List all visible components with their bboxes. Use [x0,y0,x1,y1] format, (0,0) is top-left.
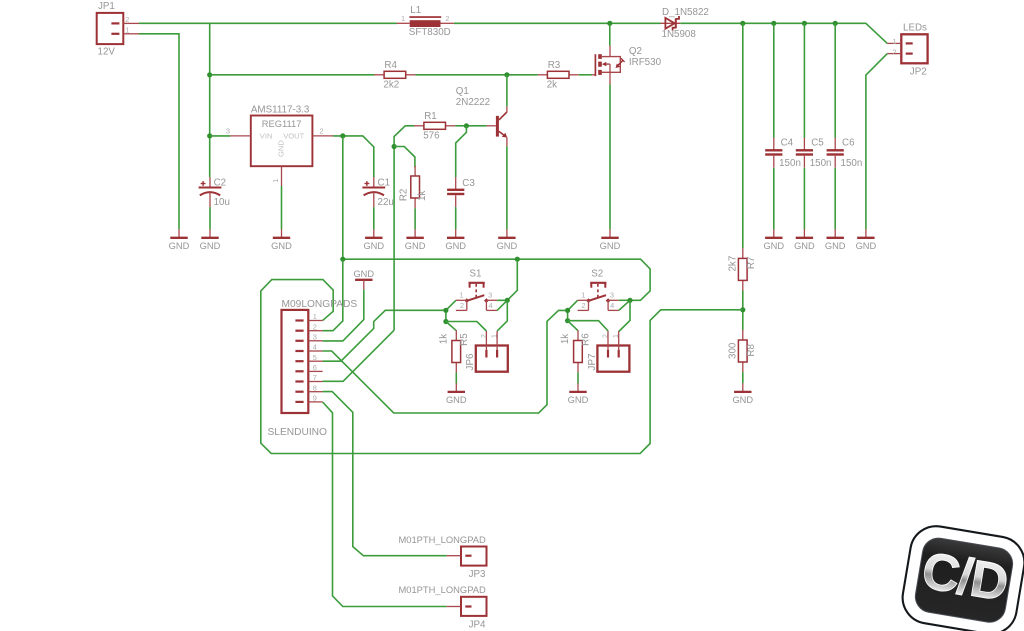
wire S1 pin 4 to right node [497,300,507,310]
svg-text:R5: R5 [459,333,470,346]
wire M09 pin 9 to JP4 [323,402,447,607]
junction: feedback node R7/R8 [740,307,745,312]
svg-text:1: 1 [271,178,280,182]
wire 3.3V horizontal distribution [343,259,650,300]
ground (C6) [834,229,836,238]
svg-text:JP4: JP4 [469,619,486,630]
connector JP4 body [461,597,487,616]
wire S2 pin 4 to right node [619,300,630,310]
svg-text:GND: GND [794,241,815,251]
wire M09 pin 8 to JP3 [323,392,447,556]
connector JP6 body [476,346,508,372]
wire C1 to GND [373,207,375,229]
connector JP1 pin 2 [111,22,119,24]
junction: S2 pin 2 feed [565,308,570,313]
junction: C3 branch at Q1 base [464,123,469,128]
svg-text:2: 2 [892,47,896,56]
svg-text:GND: GND [600,241,621,251]
ground (C2) [209,229,211,238]
svg-text:GND: GND [353,269,374,279]
switch S1 pin 1 [456,299,467,301]
wire C3 branch [456,126,467,178]
ground (JP1 pin 1) [178,229,180,238]
capacitor C2 [209,177,211,188]
svg-text:2: 2 [479,334,488,338]
connector JP6 pin 2 [485,331,487,350]
svg-text:1N5908: 1N5908 [662,29,697,40]
wire 12V to REG1117 VIN [210,135,231,137]
svg-text:22u: 22u [378,197,394,208]
wire to JP6 pin 2 [446,322,487,332]
wire C6 to GND [834,168,836,230]
connector JP2 pin 1 [906,42,913,44]
junction: R2 branch [392,144,397,149]
svg-text:GND: GND [446,395,467,405]
wire R1 right to Q1 base [455,125,486,127]
wire to R6 [568,321,578,331]
connector JP2 pin 2 [906,53,913,55]
junction: S1 R5/JP6 node [443,319,448,324]
ground (R2) [414,229,416,238]
resistor R3 [538,74,548,76]
wire C3 to GND [455,207,457,229]
wire rail to C4 [773,23,775,138]
svg-text:2: 2 [445,14,449,23]
voltage regulator U1 AMS1117-3.3 body [251,116,313,167]
wire C2 to GND [209,207,211,229]
junction: S2 right node [627,298,632,303]
svg-text:JP7: JP7 [587,354,598,371]
svg-text:3: 3 [488,291,492,300]
svg-text:JP6: JP6 [465,353,476,370]
switch S1 pin 4 [486,309,497,311]
wire rail to R7 [742,23,744,248]
ground (REG1117) [281,229,283,238]
switch S1 pin 3 [486,299,497,301]
transistor Q1 2N2222 [496,116,499,137]
wire R2 jog [394,147,415,168]
svg-text:REG1117: REG1117 [262,118,302,129]
connector SV1 pin 7 [295,380,303,382]
svg-text:GND: GND [277,140,286,157]
svg-text:12V: 12V [98,46,116,57]
connector JP2 body [901,34,927,63]
svg-text:R1: R1 [424,111,437,122]
switch S1 button bracket [469,282,485,284]
svg-text:GND: GND [169,241,190,251]
svg-text:6: 6 [313,363,317,372]
svg-text:L1: L1 [410,5,421,16]
wire R5 to GND [455,373,457,384]
ground (C3) [455,229,457,238]
connector SV1 pin 4 [295,350,303,352]
svg-text:R3: R3 [548,60,561,71]
svg-text:576: 576 [423,131,440,142]
svg-text:C2: C2 [214,177,227,188]
svg-text:GND: GND [200,241,221,251]
wire switched-12V rail: diode to JP2 [680,23,887,43]
svg-text:SFT830D: SFT830D [409,27,451,38]
svg-text:1k: 1k [417,191,428,201]
switch S1 arm [467,295,485,301]
resistor R2 [414,166,416,176]
inductor L1 [397,22,410,24]
wire R1 left to pin7 column [394,126,414,330]
wire rail to C5 [803,23,805,138]
resistor R7 [742,248,744,258]
wire to R5 [446,322,456,331]
svg-text:S2: S2 [591,269,603,280]
svg-text:150n: 150n [841,158,863,169]
svg-text:7: 7 [313,373,317,382]
switch S2 pin 3 [608,299,619,301]
wire rail to C6 [834,23,836,138]
svg-text:2k2: 2k2 [383,80,399,91]
svg-text:2k: 2k [547,80,557,91]
wire R2 to GND [414,208,416,229]
wire S1 right to JP6 pin 1 [497,300,507,331]
wire M09 pin 4 to S2 left [323,310,568,413]
wire to JP7 pin 2 [568,321,609,331]
svg-text:C3: C3 [462,178,475,189]
ground symbol (M09 pin 3, flipped) [355,279,372,281]
svg-text:1: 1 [401,14,405,23]
resistor R4 [374,74,384,76]
connector JP7 pin 2 [607,331,609,350]
svg-text:1k: 1k [560,334,571,344]
switch S1 pin 2 [456,309,467,311]
svg-text:1: 1 [125,25,129,34]
wire Q2 source to GND [609,84,611,229]
connector SV1 pin 6 [295,370,303,372]
junction: S1 pin 2 feed [443,308,448,313]
svg-text:C6: C6 [842,137,855,148]
svg-text:VOUT: VOUT [283,132,304,141]
regulator pin 1 GND [281,166,283,186]
wire feedback node to S-block [261,280,743,454]
wire 12V to R4 [210,74,375,76]
svg-text:AMS1117-3.3: AMS1117-3.3 [251,104,310,115]
svg-text:150n: 150n [810,158,832,169]
ground (R6) [577,383,579,392]
junction: S2 R6/JP7 node [565,318,570,323]
svg-text:GND: GND [271,241,292,251]
wire 3.3V: VOUT junction and C1 branch [333,136,374,177]
switch S2 pin 4 [608,309,619,311]
connector SV1 pin 2 [295,330,303,332]
junction: R7 at rail [740,21,745,26]
svg-text:1k: 1k [438,334,449,344]
regulator pin 3 VIN [230,135,251,137]
svg-text:S1: S1 [470,269,482,280]
svg-text:4: 4 [610,301,614,310]
switch S2 pin 1 [578,299,589,301]
wire S1 pin 3 to 3.3V riser [497,259,517,300]
wire M09 pin 5 to S1 left [323,310,446,361]
connector JP1 pin 1 [111,33,119,35]
svg-text:C1: C1 [378,177,391,188]
connector SV1 pin 5 [295,360,303,362]
wire C4 to GND [773,168,775,230]
switch S2 pin 2 [578,309,589,311]
svg-text:GND: GND [856,241,877,251]
svg-text:GND: GND [825,241,846,251]
connector SV1 pin 9 [295,401,303,403]
wire R6 to GND [577,373,579,384]
svg-text:GND: GND [363,241,384,251]
capacitor C3 [455,177,457,189]
svg-text:9: 9 [313,394,317,403]
wire REG pin 1 to GND [281,186,283,229]
connector JP7 pin 1 [618,331,620,350]
ground (Q2) [609,229,611,238]
regulator pin 2 VOUT [312,135,333,137]
svg-text:R2: R2 [399,189,410,202]
connector JP6 pin 1 [496,331,498,350]
switch S2 button bracket [590,282,606,284]
svg-text:2: 2 [313,322,317,331]
svg-text:2N2222: 2N2222 [456,97,490,108]
connector JP3 body [461,547,487,566]
svg-text:10u: 10u [214,197,230,208]
connector SV1 M09LONGPADS body [282,310,309,413]
svg-text:2: 2 [460,301,464,310]
svg-text:1: 1 [490,334,499,338]
svg-text:150n: 150n [779,158,801,169]
svg-text:IRF530: IRF530 [629,57,662,68]
resistor R8 [742,330,744,340]
svg-text:4: 4 [488,301,492,310]
svg-text:VIN: VIN [260,132,273,141]
svg-text:1: 1 [611,334,620,338]
svg-text:JP2: JP2 [910,67,927,78]
wire JP2 pin 2 to GND [866,54,887,230]
wire 3.3V to M09 pin 2 [323,259,343,331]
wire 12V rail: L1 to diode D [454,22,661,24]
wire R4 to R3 / Q1 collector [416,74,538,76]
svg-text:M01PTH_LONGPAD: M01PTH_LONGPAD [398,534,486,545]
capacitor C6 [834,138,836,150]
connector SV1 pin 3 [295,340,303,342]
capacitor C4 [773,138,775,150]
resistor R6 [577,330,579,340]
wire 12V rail down to C2/VIN column [209,23,211,177]
wire S2 pin 3 node [619,299,630,301]
wire R8 to GND [742,372,744,383]
capacitor C1 [373,177,375,188]
junction: S1 branch on 3.3V [515,257,520,262]
ground (JP2 pin 2) [865,229,867,238]
svg-text:R7: R7 [746,257,757,270]
svg-text:SLENDUINO: SLENDUINO [268,427,328,438]
svg-text:GND: GND [568,395,589,405]
svg-text:300: 300 [728,342,739,359]
connector JP7 body [597,346,629,372]
svg-text:LEDs: LEDs [903,23,927,34]
svg-text:M01PTH_LONGPAD: M01PTH_LONGPAD [398,584,486,595]
connector SV1 pin 1 [295,319,303,321]
svg-text:4: 4 [313,343,317,352]
svg-text:R8: R8 [746,343,757,356]
junction: VIN branch [207,133,212,138]
svg-text:R4: R4 [384,60,397,71]
ground (R5) [455,383,457,392]
wire M09 pin 3 to GND [323,290,364,341]
svg-text:1: 1 [581,291,585,300]
svg-text:2: 2 [582,301,586,310]
ground (C1) [373,229,375,238]
wire JP1 pin 1 to GND [139,34,179,230]
wire S2 pins 1-2 node [568,300,578,310]
svg-text:JP1: JP1 [98,1,115,12]
svg-text:1: 1 [892,37,896,46]
svg-text:1: 1 [313,312,317,321]
svg-text:3: 3 [313,333,317,342]
svg-text:JP3: JP3 [469,569,486,580]
wire M09 pin 7 to R1 (already drawn column) [323,330,395,381]
connector JP1 body [97,13,124,44]
ground (R8) [742,383,744,392]
wire Q2 drain to rail [609,23,611,45]
svg-text:GND: GND [497,241,518,251]
svg-text:2k7: 2k7 [728,256,739,272]
wire S1 pins 1-2 node [446,300,456,310]
svg-text:GND: GND [732,395,753,405]
wire Q1 emitter to GND [506,146,508,229]
transistor Q2 IRF530 [592,74,596,76]
svg-text:2: 2 [600,334,609,338]
wire Q1 collector up [506,75,508,106]
svg-text:3: 3 [610,291,614,300]
junction: 3.3V at VOUT column [340,257,345,262]
wire R7 to R8 [742,291,744,331]
junction: S1 right node [505,298,510,303]
junction: C6 at rail [833,21,838,26]
junction: Q1 collector at R4-R3 wire [504,72,509,77]
svg-text:8: 8 [313,383,317,392]
svg-text:1: 1 [460,291,464,300]
svg-text:GND: GND [405,241,426,251]
svg-text:Q1: Q1 [456,86,469,97]
junction: Q2 drain at rail [607,21,612,26]
svg-text:M09LONGPADS: M09LONGPADS [282,299,358,310]
connector SV1 pin 8 [295,391,303,393]
svg-text:2: 2 [319,126,323,135]
svg-text:GND: GND [763,241,784,251]
capacitor C5 [803,138,805,150]
switch S2 arm [589,295,607,301]
svg-text:R6: R6 [580,333,591,346]
svg-text:C5: C5 [811,137,824,148]
junction: C4 at rail [771,21,776,26]
svg-text:3: 3 [226,126,230,135]
wire S2 right to JP7 pin 1 [619,300,630,331]
svg-text:5: 5 [313,353,317,362]
resistor R5 [455,330,457,340]
wire C5 to GND [803,168,805,230]
ground (Q1) [506,229,508,238]
diode D 1N5822 [661,22,681,24]
ground (C5) [803,229,805,238]
wire R3 to Q2 gate [579,74,592,76]
svg-text:GND: GND [445,241,466,251]
svg-text:Q2: Q2 [629,46,642,57]
svg-text:C4: C4 [781,137,794,148]
junction: R4 branch [207,72,212,77]
ground (C4) [773,229,775,238]
wire 3.3V down to logic net [342,136,344,259]
resistor R1 [414,125,424,127]
svg-text:D_1N5822: D_1N5822 [662,7,709,18]
junction: C5 at rail [802,21,807,26]
wire 12V rail: JP1 pin 2 to L1 [139,22,397,24]
junction: VOUT net split [340,133,345,138]
svg-text:2: 2 [125,15,129,24]
